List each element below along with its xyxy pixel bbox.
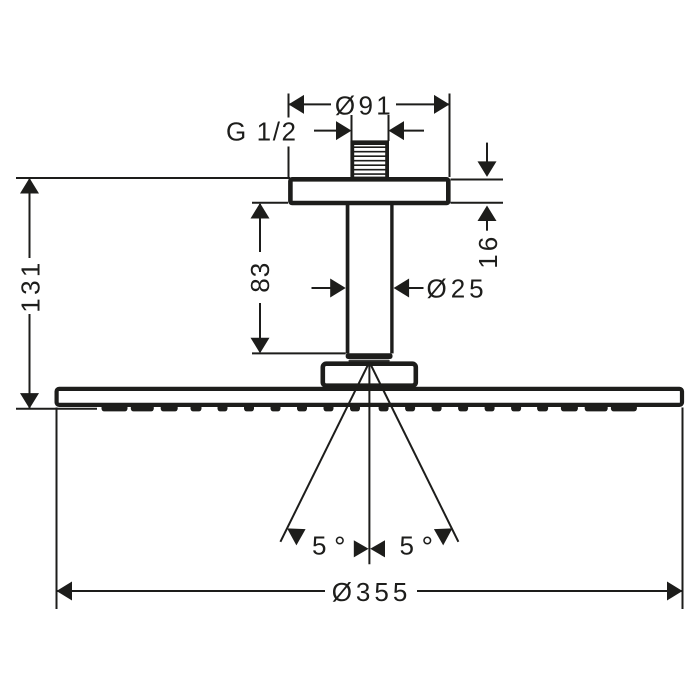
- dimension Ø355 extension lines: [57, 408, 683, 610]
- dimension Ø91 arrow left: [289, 95, 305, 114]
- dimension 131 arrow up: [20, 178, 39, 194]
- slip nut: [346, 353, 393, 359]
- spray centerline: [368, 362, 370, 564]
- dimension 83 arrow up: [251, 203, 270, 219]
- svg-text:16: 16: [473, 234, 503, 269]
- dimension Ø355 line: [57, 590, 683, 592]
- spray nozzles: [102, 405, 637, 412]
- shower head plate: [57, 389, 682, 405]
- dimension 83 extension lines: [252, 203, 346, 354]
- Ø25 arrow pointing left: [394, 279, 424, 298]
- ceiling reference line: [16, 177, 290, 179]
- ceiling plate: [290, 179, 448, 203]
- dimension Ø91 arrow right: [434, 95, 450, 114]
- dimension 83 line: [259, 204, 261, 352]
- nut flange line: [349, 360, 390, 362]
- svg-text:Ø25: Ø25: [427, 274, 488, 304]
- dimension 16 arrow up: [478, 206, 497, 231]
- shower arm pipe left wall: [346, 204, 350, 353]
- dimension Ø355 arrow left: [57, 582, 73, 601]
- spray right arrowhead: [434, 528, 453, 545]
- G1/2 arrow pointing left: [389, 121, 425, 140]
- svg-text:131: 131: [16, 259, 46, 313]
- G1/2 thread extension lines: [352, 115, 389, 141]
- dimension Ø91 extension lines: [289, 94, 450, 178]
- svg-text:G 1/2: G 1/2: [226, 117, 298, 147]
- svg-text:Ø91: Ø91: [335, 90, 394, 120]
- G1/2 arrow pointing right: [314, 121, 352, 140]
- svg-text:83: 83: [245, 262, 275, 293]
- dimension Ø91 line: [289, 103, 450, 105]
- dimension 131 arrow down: [20, 393, 39, 409]
- spray left arrowhead: [287, 528, 306, 545]
- Ø25 arrow pointing right: [312, 279, 346, 298]
- angle arrow pointing left: [370, 540, 385, 557]
- dimension 83 arrow down: [251, 338, 270, 354]
- dimension 16 arrow down: [478, 143, 497, 177]
- dimension Ø355 arrow right: [667, 582, 683, 601]
- spray left line: [280, 362, 369, 542]
- dimension 131 line: [16, 178, 97, 409]
- angle arrow pointing right: [354, 540, 369, 557]
- flange collar: [323, 364, 416, 386]
- dimension 16 extension lines: [451, 180, 504, 203]
- svg-text:Ø355: Ø355: [332, 577, 412, 607]
- spray right line: [369, 362, 458, 542]
- thread nipple G1/2: [351, 143, 389, 179]
- shower arm pipe right wall: [390, 204, 393, 353]
